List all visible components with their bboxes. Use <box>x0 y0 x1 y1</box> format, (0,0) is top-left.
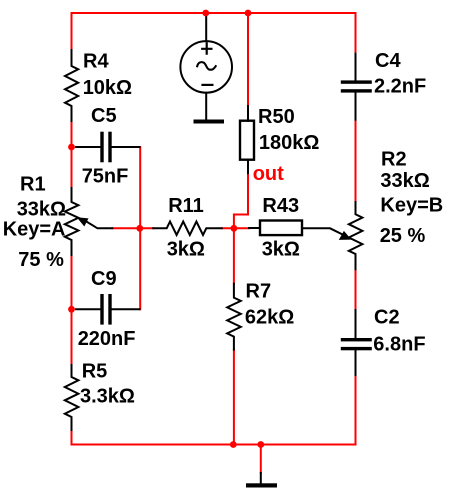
resistor R43 <box>249 221 346 237</box>
svg-text:R5: R5 <box>82 361 108 383</box>
wire right rail R2-to-C2 <box>355 269 357 310</box>
wire mid left (wiper to R11) <box>112 227 153 229</box>
wire R7 top <box>233 228 235 283</box>
svg-text:180kΩ: 180kΩ <box>259 132 320 154</box>
svg-text:10kΩ: 10kΩ <box>83 77 132 99</box>
svg-text:33kΩ: 33kΩ <box>380 170 429 192</box>
node dot top R50 <box>245 10 252 17</box>
resistor R7 <box>227 284 241 350</box>
svg-text:Key=B: Key=B <box>380 195 443 217</box>
svg-text:33kΩ: 33kΩ <box>17 199 66 221</box>
svg-text:C2: C2 <box>374 307 400 329</box>
potentiometer R2 wiper arrowhead <box>339 231 352 240</box>
wire out net (R50 bottom to mid node) <box>234 173 248 228</box>
svg-text:75nF: 75nF <box>82 166 129 188</box>
svg-text:25 %: 25 % <box>380 225 426 247</box>
potentiometer R1 <box>65 188 79 255</box>
wire R7 bottom <box>233 350 235 445</box>
node dot C9 left <box>68 306 75 313</box>
node dot bottom ground <box>257 441 264 448</box>
svg-text:2.2nF: 2.2nF <box>374 76 426 98</box>
ground (bottom) <box>260 473 262 484</box>
node dot mid C5C9 <box>136 225 143 232</box>
potentiometer R2 <box>349 202 363 269</box>
capacitor C2 <box>355 310 357 375</box>
node dot top AC <box>202 10 209 17</box>
svg-text:C9: C9 <box>91 268 117 290</box>
wire right rail upper <box>355 13 357 54</box>
wire left rail lower <box>71 430 73 445</box>
svg-text:3kΩ: 3kΩ <box>167 238 205 260</box>
svg-text:75 %: 75 % <box>18 249 64 271</box>
svg-text:62kΩ: 62kΩ <box>245 307 294 329</box>
wire R50 top <box>247 13 249 106</box>
node dot bottom R7 <box>230 441 237 448</box>
svg-text:out: out <box>253 163 284 185</box>
resistor R5 <box>65 365 79 430</box>
wire right rail lower <box>355 375 357 445</box>
node dot C5 left <box>68 144 75 151</box>
resistor R11 <box>153 222 222 236</box>
capacitor C5 <box>76 146 140 148</box>
svg-text:220nF: 220nF <box>78 328 136 350</box>
svg-text:R50: R50 <box>258 106 295 128</box>
svg-text:R11: R11 <box>168 195 204 217</box>
svg-text:Key=A: Key=A <box>3 219 66 241</box>
svg-text:R7: R7 <box>246 280 272 302</box>
wire left rail R4-to-R1 <box>71 121 73 188</box>
svg-text:C5: C5 <box>91 105 117 127</box>
wire C5-C9 vertical <box>139 147 141 309</box>
wire left rail upper <box>71 13 73 50</box>
svg-text:C4: C4 <box>375 50 401 72</box>
wire bottom rail <box>72 444 356 446</box>
svg-text:3kΩ: 3kΩ <box>262 238 300 260</box>
node dot mid out <box>231 225 238 232</box>
resistor R4 <box>65 50 78 121</box>
wire right rail C4-to-R2 <box>355 120 357 202</box>
AC source V1 <box>180 14 232 120</box>
capacitor C4 <box>355 54 357 120</box>
svg-text:R2: R2 <box>381 149 407 171</box>
resistor R50 <box>240 106 254 173</box>
svg-text:R43: R43 <box>262 195 299 217</box>
svg-text:3.3kΩ: 3.3kΩ <box>80 386 135 408</box>
wire top rail <box>72 12 356 14</box>
svg-text:6.8nF: 6.8nF <box>373 334 425 356</box>
svg-text:R1: R1 <box>20 174 46 196</box>
wire ground stub <box>260 445 262 474</box>
ground (AC source) <box>194 120 225 124</box>
svg-text:R4: R4 <box>83 51 109 73</box>
potentiometer R1 wiper <box>86 221 112 228</box>
wire mid right (R11 to R43) <box>222 227 249 229</box>
capacitor C9 <box>76 308 140 310</box>
wire left rail R1-to-R5 <box>71 255 73 365</box>
